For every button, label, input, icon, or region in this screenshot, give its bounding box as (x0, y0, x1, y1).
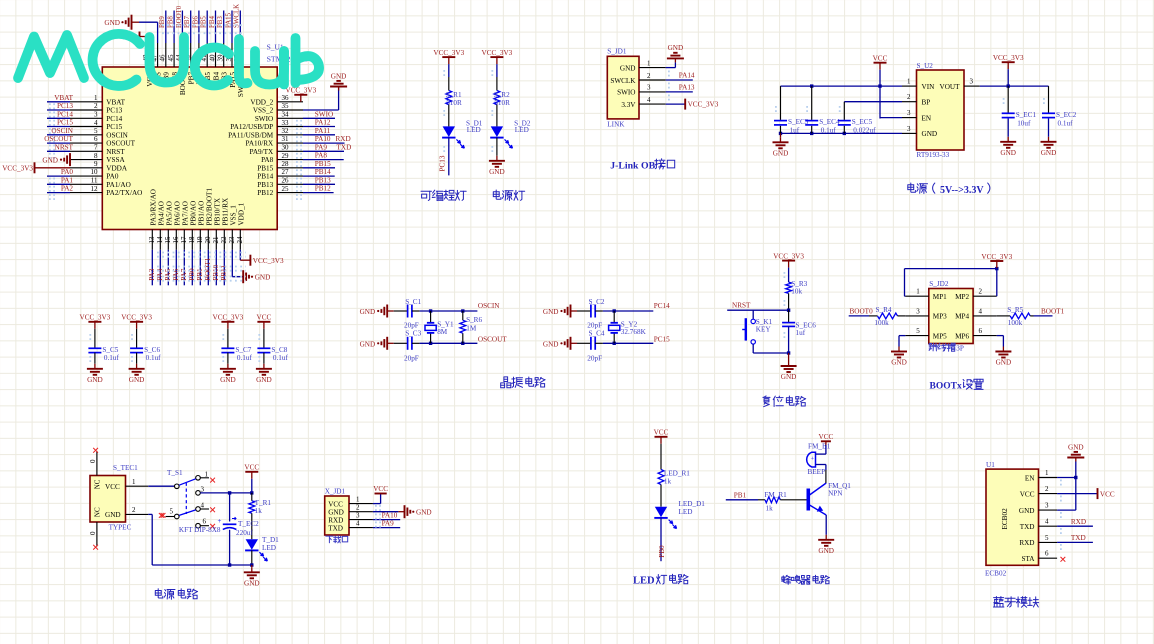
svg-text:15: 15 (164, 236, 172, 244)
svg-text:VCC: VCC (1020, 490, 1035, 498)
svg-text:3: 3 (94, 111, 98, 119)
svg-text:2: 2 (1045, 485, 1049, 493)
svg-text:MP4: MP4 (955, 313, 969, 321)
svg-text:SWCLK: SWCLK (234, 4, 241, 28)
svg-text:NPN: NPN (828, 489, 843, 497)
svg-text:100k: 100k (874, 319, 889, 327)
svg-text:20pF: 20pF (587, 354, 602, 362)
svg-text:PA0: PA0 (106, 173, 119, 181)
svg-text:PC14: PC14 (654, 302, 670, 310)
svg-text:11: 11 (91, 177, 98, 185)
svg-text:PA12: PA12 (315, 119, 331, 127)
svg-text:BOOTx: BOOTx (930, 382, 962, 392)
svg-text:X_JD1: X_JD1 (325, 487, 346, 495)
svg-text:6: 6 (94, 135, 98, 143)
svg-text:PB10/TX: PB10/TX (213, 197, 221, 225)
svg-text:VIN: VIN (922, 83, 936, 91)
svg-text:VCC: VCC (105, 483, 120, 491)
svg-text:RXD: RXD (1071, 518, 1086, 526)
svg-text:36: 36 (282, 94, 290, 102)
svg-text:10uf: 10uf (1017, 119, 1031, 127)
svg-text:VSS_2: VSS_2 (253, 107, 274, 115)
svg-text:TYPEC: TYPEC (109, 524, 132, 532)
svg-text:3: 3 (356, 511, 360, 519)
svg-text:NC: NC (94, 507, 102, 517)
svg-text:GND: GND (922, 130, 938, 138)
svg-text:5: 5 (916, 327, 920, 335)
svg-text:PB11/RX: PB11/RX (221, 197, 229, 226)
svg-text:3: 3 (916, 307, 920, 315)
svg-text:VSSA: VSSA (106, 156, 125, 164)
svg-text:PA1/AO: PA1/AO (106, 181, 131, 189)
svg-text:VBAT: VBAT (54, 94, 73, 102)
svg-text:OSCIN: OSCIN (106, 131, 128, 139)
svg-text:GND: GND (255, 274, 271, 282)
svg-text:10k: 10k (791, 287, 802, 295)
svg-text:VDD_2: VDD_2 (250, 98, 273, 106)
svg-text:3.3V: 3.3V (621, 101, 636, 109)
svg-text:GND: GND (328, 509, 344, 517)
svg-text:SWIO: SWIO (315, 110, 333, 118)
svg-text:PB5: PB5 (201, 16, 208, 28)
svg-text:PC15: PC15 (57, 119, 73, 127)
svg-text:6: 6 (1045, 550, 1049, 558)
svg-text:VCC_3V3: VCC_3V3 (2, 164, 33, 172)
svg-text:S_R2: S_R2 (494, 91, 510, 99)
svg-text:VCC_3V3: VCC_3V3 (433, 49, 464, 57)
svg-text:OSCOUT: OSCOUT (478, 335, 507, 343)
svg-text:PB1/AO: PB1/AO (197, 201, 205, 226)
svg-text:PB14: PB14 (257, 173, 273, 181)
svg-text:2: 2 (647, 72, 651, 80)
svg-text:+: + (810, 456, 814, 463)
svg-text:220uf: 220uf (236, 529, 253, 537)
svg-text:VOUT: VOUT (940, 83, 961, 91)
svg-text:GND: GND (773, 150, 789, 158)
svg-text:3: 3 (907, 125, 911, 133)
svg-text:PB14: PB14 (315, 168, 331, 176)
svg-text:S_EC2: S_EC2 (1056, 111, 1077, 119)
svg-text:J-Link OB: J-Link OB (610, 160, 655, 171)
svg-text:2: 2 (356, 504, 360, 512)
svg-text:4: 4 (94, 119, 98, 127)
svg-text:25: 25 (282, 185, 290, 193)
svg-text:S_C8: S_C8 (271, 346, 287, 354)
svg-text:PC14: PC14 (57, 110, 73, 118)
svg-text:40: 40 (208, 54, 216, 62)
svg-text:0: 0 (89, 531, 97, 535)
svg-text:510R: 510R (446, 99, 462, 107)
svg-text:7: 7 (94, 144, 98, 152)
svg-text:VCC_3V3: VCC_3V3 (80, 314, 111, 322)
svg-text:S_JD1: S_JD1 (607, 47, 627, 55)
svg-text:0.1uf: 0.1uf (104, 354, 120, 362)
svg-text:10: 10 (91, 168, 99, 176)
svg-text:OSCOUT: OSCOUT (44, 135, 73, 143)
svg-text:VSS_1: VSS_1 (229, 205, 237, 226)
svg-text:PA12/USB/DP: PA12/USB/DP (230, 123, 273, 131)
svg-text:35: 35 (282, 102, 290, 110)
svg-text:GND: GND (129, 376, 145, 384)
svg-text:VCC: VCC (244, 464, 259, 472)
svg-text:S_C4: S_C4 (589, 330, 605, 338)
svg-text:VCC_3V3: VCC_3V3 (981, 253, 1012, 261)
svg-text:GND: GND (256, 376, 272, 384)
svg-text:8: 8 (94, 152, 98, 160)
svg-text:VCC_3V3: VCC_3V3 (121, 314, 152, 322)
svg-text:+: + (218, 517, 222, 525)
svg-text:RT9193-33: RT9193-33 (917, 151, 950, 159)
svg-text:PB15: PB15 (315, 160, 331, 168)
svg-text:3: 3 (1045, 502, 1049, 510)
svg-text:TXD: TXD (1020, 523, 1035, 531)
svg-text:PA13: PA13 (679, 83, 695, 91)
svg-text:BOOT0: BOOT0 (850, 308, 874, 316)
svg-text:LED: LED (515, 126, 529, 134)
svg-text:29: 29 (282, 152, 290, 160)
svg-text:NRST: NRST (732, 302, 751, 310)
svg-text:VDD_1: VDD_1 (237, 202, 245, 225)
svg-text:PB12: PB12 (257, 189, 273, 197)
svg-text:TXD: TXD (337, 143, 352, 151)
svg-text:1uf: 1uf (796, 329, 806, 337)
svg-text:LED: LED (262, 544, 276, 552)
svg-text:RXD: RXD (1019, 539, 1034, 547)
svg-text:30: 30 (282, 144, 290, 152)
svg-text:VCC: VCC (819, 433, 834, 441)
svg-text:VCC: VCC (257, 314, 272, 322)
svg-text:LED: LED (467, 126, 481, 134)
svg-text:GND: GND (996, 359, 1012, 367)
svg-text:PA14: PA14 (679, 72, 695, 80)
svg-text:S_C1: S_C1 (405, 298, 421, 306)
svg-text:16: 16 (172, 236, 180, 244)
svg-text:KFT DIP-8X8: KFT DIP-8X8 (179, 526, 221, 534)
svg-text:PA10: PA10 (382, 511, 398, 519)
svg-text:1: 1 (1045, 469, 1049, 477)
svg-text:33: 33 (282, 119, 290, 127)
svg-text:GND: GND (543, 340, 559, 348)
svg-text:GND: GND (244, 580, 260, 588)
svg-text:19: 19 (196, 236, 204, 244)
svg-text:S_JD2: S_JD2 (929, 280, 949, 288)
svg-text:PA10/RX: PA10/RX (245, 140, 274, 148)
svg-text:GND: GND (668, 44, 684, 52)
svg-text:2: 2 (132, 506, 136, 514)
svg-text:VCC_3V3: VCC_3V3 (993, 54, 1024, 62)
svg-text:VCC: VCC (328, 500, 343, 508)
svg-text:23: 23 (228, 236, 236, 244)
svg-text:VDDA: VDDA (106, 164, 128, 172)
svg-text:1k: 1k (255, 507, 263, 515)
svg-text:TXD: TXD (328, 524, 343, 532)
svg-text:PA9/TX: PA9/TX (249, 148, 274, 156)
svg-text:PB12: PB12 (315, 185, 331, 193)
svg-text:GND: GND (620, 64, 636, 72)
svg-text:OSCIN: OSCIN (478, 302, 500, 310)
svg-text:PA11/USB/DM: PA11/USB/DM (228, 131, 274, 139)
svg-text:VCC_3V3: VCC_3V3 (482, 49, 513, 57)
svg-text:PA7/AO: PA7/AO (181, 201, 189, 226)
svg-text:26: 26 (282, 177, 290, 185)
svg-text:S_C5: S_C5 (102, 346, 118, 354)
svg-text:GND: GND (1068, 443, 1084, 451)
svg-text:PA3/RX/AO: PA3/RX/AO (149, 189, 157, 225)
svg-text:8M: 8M (437, 328, 448, 336)
svg-text:2: 2 (907, 93, 911, 101)
svg-text:VCC: VCC (873, 55, 888, 63)
svg-text:FM_R1: FM_R1 (764, 491, 787, 499)
svg-text:GND: GND (818, 547, 834, 555)
svg-text:LINK: LINK (607, 121, 625, 129)
svg-text:PA2/TX/AO: PA2/TX/AO (106, 189, 142, 197)
svg-text:VBAT: VBAT (106, 98, 125, 106)
svg-text:MP3: MP3 (933, 313, 947, 321)
svg-text:14: 14 (156, 236, 164, 244)
svg-text:510R: 510R (494, 99, 510, 107)
svg-text:18: 18 (188, 236, 196, 244)
svg-text:PB6: PB6 (192, 16, 199, 28)
svg-text:1uf: 1uf (790, 127, 800, 135)
svg-text:0.022uf: 0.022uf (853, 127, 876, 135)
svg-text:1: 1 (647, 59, 651, 67)
svg-text:PA11: PA11 (315, 127, 331, 135)
svg-text:1M: 1M (466, 324, 477, 332)
svg-text:GND: GND (105, 511, 121, 519)
svg-text:6: 6 (203, 518, 207, 526)
svg-text:3: 3 (201, 485, 205, 493)
svg-text:GND: GND (1041, 149, 1057, 157)
svg-text:GND: GND (360, 340, 376, 348)
svg-text:S_R4: S_R4 (876, 306, 892, 314)
svg-text:3: 3 (970, 78, 974, 86)
svg-text:VCC_3V3: VCC_3V3 (285, 87, 316, 95)
svg-text:45: 45 (167, 54, 175, 62)
svg-text:5V-->3.3V: 5V-->3.3V (940, 185, 984, 196)
svg-text:PA4/AO: PA4/AO (157, 201, 165, 226)
svg-text:VCC_3V3: VCC_3V3 (773, 252, 804, 260)
svg-text:13: 13 (148, 236, 156, 244)
svg-text:GND: GND (416, 509, 432, 517)
svg-text:24: 24 (236, 236, 244, 244)
svg-text:PB8: PB8 (168, 16, 175, 28)
svg-text:S_U2: S_U2 (917, 62, 934, 70)
svg-text:20: 20 (204, 236, 212, 244)
svg-text:0.1uf: 0.1uf (237, 354, 253, 362)
svg-text:PC13: PC13 (57, 102, 73, 110)
svg-text:VCC: VCC (1100, 490, 1115, 498)
svg-text:S_R6: S_R6 (466, 316, 482, 324)
svg-text:BP: BP (922, 99, 931, 107)
svg-text:NRST: NRST (106, 148, 125, 156)
svg-text:12: 12 (91, 185, 99, 193)
svg-text:9: 9 (94, 160, 98, 168)
svg-text:0: 0 (89, 459, 97, 463)
svg-text:S_EC1: S_EC1 (1016, 111, 1037, 119)
svg-text:PC15: PC15 (654, 335, 670, 343)
svg-text:2: 2 (94, 102, 98, 110)
svg-text:PB15: PB15 (257, 164, 273, 172)
svg-text:GND: GND (489, 168, 505, 176)
svg-text:S_R1: S_R1 (446, 91, 462, 99)
svg-text:VCC_3V3: VCC_3V3 (688, 101, 719, 109)
svg-text:1k: 1k (664, 477, 672, 485)
svg-text:0.1uf: 0.1uf (1058, 119, 1074, 127)
svg-text:GND: GND (42, 157, 58, 165)
svg-text:4: 4 (979, 307, 983, 315)
svg-text:PC14: PC14 (106, 115, 122, 123)
svg-text:S_EC5: S_EC5 (852, 118, 873, 126)
svg-text:100k: 100k (1008, 319, 1023, 327)
svg-text:1: 1 (132, 478, 136, 486)
svg-text:32: 32 (282, 127, 290, 135)
svg-text:4: 4 (1045, 518, 1049, 526)
svg-text:T_R1: T_R1 (255, 499, 272, 507)
svg-text:3P: 3P (956, 345, 964, 353)
svg-text:PB3: PB3 (217, 16, 224, 28)
svg-text:SWIO: SWIO (255, 115, 273, 123)
svg-text:LED: LED (633, 576, 655, 587)
svg-text:OSCOUT: OSCOUT (106, 140, 135, 148)
svg-text:NC: NC (94, 479, 102, 489)
svg-text:28: 28 (282, 160, 290, 168)
svg-text:S_R5: S_R5 (1007, 306, 1023, 314)
svg-text:VCC_3V3: VCC_3V3 (253, 257, 284, 265)
svg-text:PA5/AO: PA5/AO (165, 201, 173, 226)
svg-text:PA9: PA9 (315, 143, 328, 151)
svg-text:4: 4 (647, 96, 651, 104)
svg-text:PB2/BOOT1: PB2/BOOT1 (205, 188, 213, 226)
svg-text:SWCLK: SWCLK (610, 77, 636, 85)
svg-text:GND: GND (104, 19, 120, 27)
svg-text:PB1: PB1 (734, 492, 747, 500)
svg-text:MP2: MP2 (955, 293, 969, 301)
svg-text:SWIO: SWIO (617, 89, 635, 97)
svg-text:TXD: TXD (1071, 534, 1086, 542)
svg-text:PA1: PA1 (61, 176, 74, 184)
svg-text:PA10: PA10 (315, 135, 331, 143)
svg-text:VCC: VCC (654, 429, 669, 437)
svg-text:3: 3 (647, 84, 651, 92)
svg-text:PB0: PB0 (658, 545, 666, 558)
svg-text:27: 27 (282, 168, 290, 176)
svg-text:NRST: NRST (55, 143, 74, 151)
svg-text:PA8: PA8 (315, 152, 328, 160)
svg-text:PC13: PC13 (439, 155, 447, 171)
svg-text:GND: GND (891, 359, 907, 367)
svg-text:22: 22 (220, 236, 228, 244)
svg-text:4: 4 (201, 501, 205, 509)
svg-text:RXD: RXD (336, 135, 351, 143)
svg-text:EN: EN (1025, 474, 1035, 482)
svg-text:PB9: PB9 (159, 16, 166, 28)
svg-text:6: 6 (979, 327, 983, 335)
svg-text:GND: GND (220, 376, 236, 384)
svg-text:34: 34 (282, 111, 290, 119)
svg-text:1k: 1k (766, 504, 774, 512)
svg-text:GND: GND (360, 308, 376, 316)
svg-text:5: 5 (94, 127, 98, 135)
svg-text:S_C2: S_C2 (589, 298, 605, 306)
svg-text:S_C7: S_C7 (235, 346, 251, 354)
svg-text:2: 2 (979, 288, 983, 296)
svg-text:GND: GND (1019, 507, 1035, 515)
svg-text:MP6: MP6 (955, 332, 969, 340)
svg-text:ECB02: ECB02 (985, 570, 1007, 578)
svg-text:BEEP: BEEP (808, 468, 826, 476)
svg-text:0.1uf: 0.1uf (821, 127, 837, 135)
svg-text:1: 1 (907, 78, 911, 86)
svg-text:32.768K: 32.768K (621, 328, 647, 336)
svg-text:PB13: PB13 (257, 181, 273, 189)
svg-text:VCC_3V3: VCC_3V3 (213, 314, 244, 322)
svg-text:GND: GND (543, 308, 559, 316)
svg-text:1: 1 (94, 94, 98, 102)
svg-text:0.1uf: 0.1uf (273, 354, 289, 362)
svg-text:T_D1: T_D1 (262, 536, 279, 544)
svg-text:T_EC2: T_EC2 (238, 520, 259, 528)
svg-text:S_C6: S_C6 (144, 346, 160, 354)
svg-text:0.1uf: 0.1uf (146, 354, 162, 362)
svg-text:STA: STA (1021, 555, 1035, 563)
svg-text:17: 17 (180, 236, 188, 244)
svg-text:20pF: 20pF (404, 322, 419, 330)
svg-text:PB0/AO: PB0/AO (189, 201, 197, 226)
svg-text:EN: EN (922, 114, 932, 122)
svg-text:S_C3: S_C3 (405, 330, 421, 338)
svg-text:GND: GND (1000, 149, 1016, 157)
svg-text:5: 5 (170, 508, 174, 516)
svg-text:1: 1 (356, 495, 360, 503)
svg-text:OSCIN: OSCIN (51, 127, 73, 135)
svg-text:PA0: PA0 (61, 168, 74, 176)
svg-text:3: 3 (907, 109, 911, 117)
svg-text:VCC: VCC (373, 485, 388, 493)
svg-text:S_TEC1: S_TEC1 (113, 464, 138, 472)
svg-text:46: 46 (159, 54, 167, 62)
svg-text:PA6/AO: PA6/AO (173, 201, 181, 226)
svg-text:GND: GND (331, 72, 347, 80)
svg-text:GND: GND (87, 376, 103, 384)
svg-text:T_S1: T_S1 (167, 469, 183, 477)
svg-text:GND: GND (781, 373, 797, 381)
svg-text:21: 21 (212, 236, 220, 244)
svg-text:U1: U1 (986, 461, 995, 469)
svg-text:PC15: PC15 (106, 123, 122, 131)
svg-text:PA8: PA8 (261, 156, 274, 164)
svg-text:RXD: RXD (328, 516, 343, 524)
svg-text:LED_D1: LED_D1 (679, 500, 706, 508)
svg-text:4: 4 (356, 519, 360, 527)
svg-text:20pF: 20pF (404, 354, 419, 362)
svg-text:MP5: MP5 (933, 332, 947, 340)
svg-text:S_EC4: S_EC4 (819, 118, 840, 126)
svg-text:BOOT1: BOOT1 (1041, 308, 1065, 316)
svg-text:PA9: PA9 (382, 519, 395, 527)
svg-text:PA3: PA3 (148, 268, 156, 281)
svg-text:ECB02: ECB02 (1001, 508, 1009, 530)
svg-text:LED_R1: LED_R1 (664, 469, 690, 477)
svg-text:20pF: 20pF (587, 322, 602, 330)
svg-text:PC13: PC13 (106, 107, 122, 115)
svg-text:FM_B1: FM_B1 (808, 443, 831, 451)
svg-text:5: 5 (1045, 534, 1049, 542)
svg-text:PB13: PB13 (315, 176, 331, 184)
svg-text:PA2: PA2 (61, 185, 74, 193)
svg-text:PB7: PB7 (184, 16, 191, 28)
svg-text:MP1: MP1 (933, 293, 947, 301)
svg-text:KEY: KEY (756, 326, 772, 334)
